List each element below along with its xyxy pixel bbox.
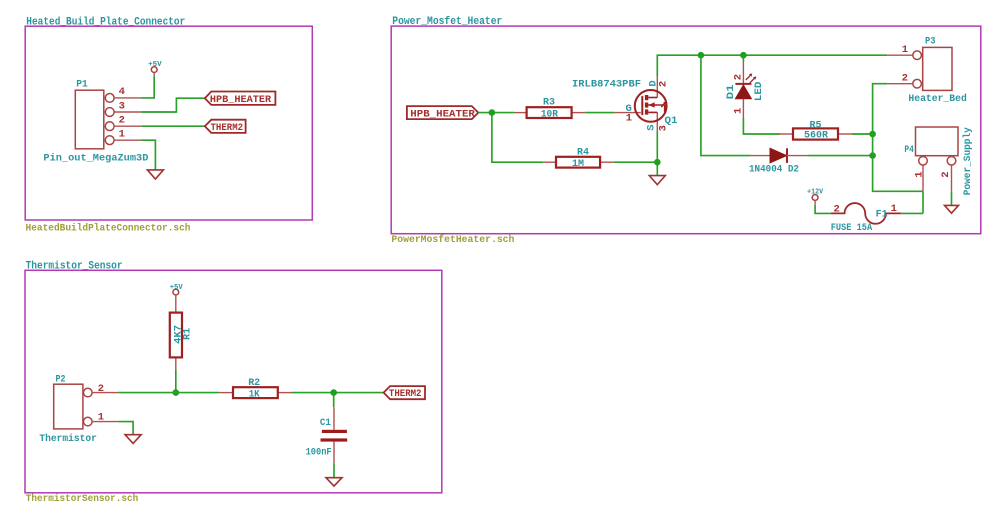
svg-text:560R: 560R <box>804 130 829 142</box>
fuse F1 <box>831 203 901 234</box>
wire P2 pin1 to ground <box>118 422 133 435</box>
global label THERM2 (sheet3) <box>384 386 425 400</box>
svg-text:2: 2 <box>733 74 745 80</box>
resistor R3 <box>515 97 585 121</box>
global label THERM2 (sheet1) <box>205 120 246 134</box>
connector P3 <box>887 35 967 105</box>
svg-text:C1: C1 <box>320 417 331 429</box>
svg-text:HPB_HEATER: HPB_HEATER <box>410 108 475 120</box>
svg-text:1: 1 <box>119 129 125 141</box>
wire R3 to gate <box>585 112 615 114</box>
wire drain to top rail to P3 pin1 <box>657 55 887 76</box>
junction (top rail LED) <box>740 52 747 59</box>
svg-text:1: 1 <box>891 203 897 215</box>
wire pin2 to THERM2 <box>142 125 205 127</box>
wire left vertical to D2 <box>701 55 750 155</box>
wire R4 to source junction <box>614 161 658 163</box>
svg-text:2: 2 <box>940 171 952 177</box>
svg-text:1: 1 <box>914 171 926 177</box>
svg-text:FUSE 15A: FUSE 15A <box>831 222 873 234</box>
resistor R1 <box>170 295 194 370</box>
svg-text:2: 2 <box>658 81 670 87</box>
wire R2 to THERM2 <box>292 392 384 394</box>
junction (R5 net) <box>869 131 876 138</box>
wire fuse to P4 pin1 <box>901 212 923 214</box>
svg-text:2: 2 <box>834 203 840 215</box>
resistor R5 <box>780 119 852 141</box>
svg-text:HPB_HEATER: HPB_HEATER <box>210 94 272 106</box>
svg-text:+5V: +5V <box>170 284 183 292</box>
ground (P2) <box>125 435 141 444</box>
ground (sheet1) <box>147 170 163 179</box>
ground (C1) <box>326 478 342 486</box>
svg-text:3: 3 <box>119 100 125 112</box>
wire pin4 to +5V <box>141 76 155 98</box>
svg-text:1: 1 <box>98 411 104 423</box>
svg-text:Heater_Bed: Heater_Bed <box>908 93 966 105</box>
svg-text:+12V: +12V <box>807 188 823 196</box>
wire P4 pin2 to ground <box>951 192 953 206</box>
svg-text:2: 2 <box>902 73 908 85</box>
svg-text:10R: 10R <box>541 108 559 120</box>
svg-text:1: 1 <box>626 112 632 124</box>
svg-text:100nF: 100nF <box>306 446 332 458</box>
wire HPB_HEATER to R3 <box>478 112 514 114</box>
connector P4 <box>904 127 974 196</box>
P1 pin numbers <box>119 86 125 141</box>
svg-text:Thermistor_Sensor: Thermistor_Sensor <box>26 260 123 272</box>
svg-text:D1: D1 <box>725 84 737 99</box>
power +12V <box>807 188 823 204</box>
svg-text:Pin_out_MegaZum3D: Pin_out_MegaZum3D <box>43 153 148 165</box>
svg-text:1K: 1K <box>249 388 261 400</box>
svg-text:THERM2: THERM2 <box>389 388 422 400</box>
svg-text:R4: R4 <box>577 147 589 159</box>
wire C1 to ground <box>333 463 335 477</box>
global label HPB_HEATER (sheet1) <box>205 92 276 107</box>
ground (Q1 source) <box>649 176 665 185</box>
svg-text:P2: P2 <box>56 373 66 385</box>
svg-text:1: 1 <box>733 108 745 114</box>
svg-text:P4: P4 <box>904 144 914 156</box>
svg-text:1: 1 <box>902 44 908 56</box>
svg-text:P3: P3 <box>925 35 936 47</box>
junction (C1 net) <box>330 389 337 396</box>
global label HPB_HEATER (sheet2) <box>407 106 478 120</box>
wire right vertical <box>873 84 923 192</box>
svg-text:THERM2: THERM2 <box>211 122 244 134</box>
svg-text:Power_Mosfet_Heater: Power_Mosfet_Heater <box>392 16 502 28</box>
power +5V (sheet1) <box>148 61 162 76</box>
svg-text:+5V: +5V <box>148 61 162 69</box>
wire main rail P2 to R2 <box>118 392 219 394</box>
junction (source net) <box>654 159 661 166</box>
wire pin1 to ground <box>141 140 156 170</box>
svg-text:IRLB8743PBF: IRLB8743PBF <box>572 79 641 91</box>
resistor R2 <box>219 377 291 401</box>
junction (top rail left) <box>698 52 705 59</box>
wire LED to R5 <box>743 118 780 134</box>
power +5V (sheet3) <box>170 284 183 295</box>
svg-text:1M: 1M <box>572 158 584 170</box>
wire +12V to fuse <box>815 205 831 214</box>
svg-text:R2: R2 <box>248 377 260 389</box>
ground (P4) <box>945 205 959 213</box>
wire pin3 to HPB_HEATER <box>141 98 205 112</box>
connector P1 <box>75 90 114 149</box>
wire source to junction to ground <box>656 132 658 176</box>
junction (D2 net) <box>869 152 876 159</box>
junction (R1 net) <box>173 389 180 396</box>
wire D2 to right vertical <box>808 155 873 157</box>
junction (gate net) <box>489 109 496 116</box>
sheet Power_Mosfet_Heater <box>391 26 981 234</box>
svg-text:F1: F1 <box>876 209 888 221</box>
svg-text:ThermistorSensor.sch: ThermistorSensor.sch <box>26 493 139 505</box>
LED D1 <box>725 55 765 118</box>
svg-text:R3: R3 <box>543 97 555 109</box>
wire R5 to right vertical <box>852 133 873 135</box>
svg-text:P1: P1 <box>76 79 88 91</box>
svg-text:Heated_Build_Plate_Connector: Heated_Build_Plate_Connector <box>26 17 185 29</box>
svg-text:R1: R1 <box>182 328 194 340</box>
wire junction down to R4 <box>492 113 543 163</box>
svg-text:HeatedBuildPlateConnector.sch: HeatedBuildPlateConnector.sch <box>26 222 191 234</box>
capacitor C1 <box>306 393 348 464</box>
svg-text:4: 4 <box>119 86 125 98</box>
svg-text:PowerMosfetHeater.sch: PowerMosfetHeater.sch <box>391 234 514 246</box>
svg-text:S: S <box>645 124 657 130</box>
connector P2 <box>39 373 118 445</box>
P1 pin stubs <box>114 98 142 140</box>
svg-text:Thermistor: Thermistor <box>39 433 97 445</box>
svg-text:1N4004 D2: 1N4004 D2 <box>749 164 799 176</box>
svg-text:Power_Supply: Power_Supply <box>962 127 974 196</box>
svg-text:2: 2 <box>119 114 125 126</box>
svg-text:2: 2 <box>98 383 104 395</box>
diode D2 1N4004 <box>749 148 808 175</box>
resistor R4 <box>543 147 614 170</box>
sheet Thermistor_Sensor <box>25 270 442 493</box>
svg-text:LED: LED <box>753 82 765 102</box>
sheet Heated_Build_Plate_Connector <box>25 26 312 220</box>
svg-text:3: 3 <box>658 125 670 131</box>
transistor Q1 IRLB8743PBF <box>572 76 678 131</box>
wire R1 to main rail <box>175 370 177 393</box>
